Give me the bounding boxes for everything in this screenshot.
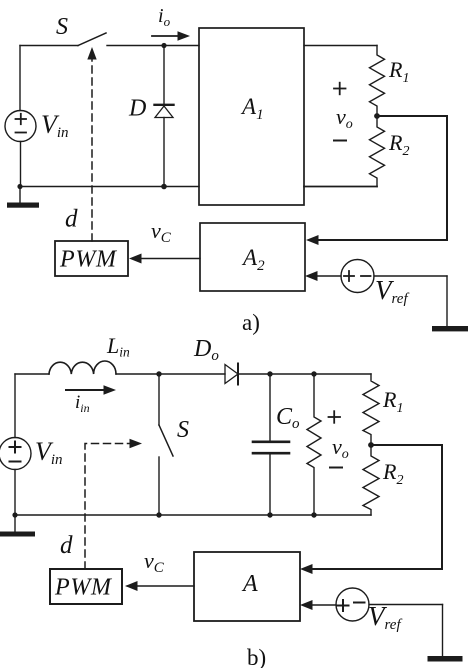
svg-text:D: D [128, 96, 146, 122]
svg-text:vo: vo [336, 104, 353, 132]
svg-text:S: S [56, 14, 68, 40]
svg-text:b): b) [247, 645, 266, 668]
svg-text:a): a) [242, 310, 260, 335]
svg-text:A: A [241, 571, 258, 597]
svg-text:R1: R1 [382, 387, 403, 416]
svg-text:vC: vC [151, 218, 172, 246]
svg-text:Lin: Lin [106, 333, 130, 360]
svg-text:Vref: Vref [375, 275, 409, 307]
svg-text:Do: Do [193, 336, 219, 364]
svg-text:A1: A1 [240, 94, 264, 123]
svg-text:Vref: Vref [368, 601, 402, 633]
svg-text:Vin: Vin [35, 437, 63, 468]
svg-text:Vin: Vin [41, 110, 69, 141]
svg-text:vo: vo [332, 434, 349, 462]
svg-text:PWM: PWM [54, 575, 113, 601]
svg-text:R1: R1 [388, 57, 409, 86]
svg-text:Co: Co [276, 404, 300, 432]
svg-text:A2: A2 [241, 245, 265, 274]
svg-text:vC: vC [144, 548, 165, 576]
svg-text:io: io [158, 5, 171, 29]
svg-text:iin: iin [75, 392, 90, 415]
svg-text:R2: R2 [382, 459, 403, 488]
svg-text:R2: R2 [388, 130, 409, 159]
svg-text:PWM: PWM [59, 247, 118, 273]
svg-text:d: d [65, 206, 78, 233]
svg-text:S: S [177, 417, 189, 443]
svg-text:d: d [60, 532, 73, 559]
